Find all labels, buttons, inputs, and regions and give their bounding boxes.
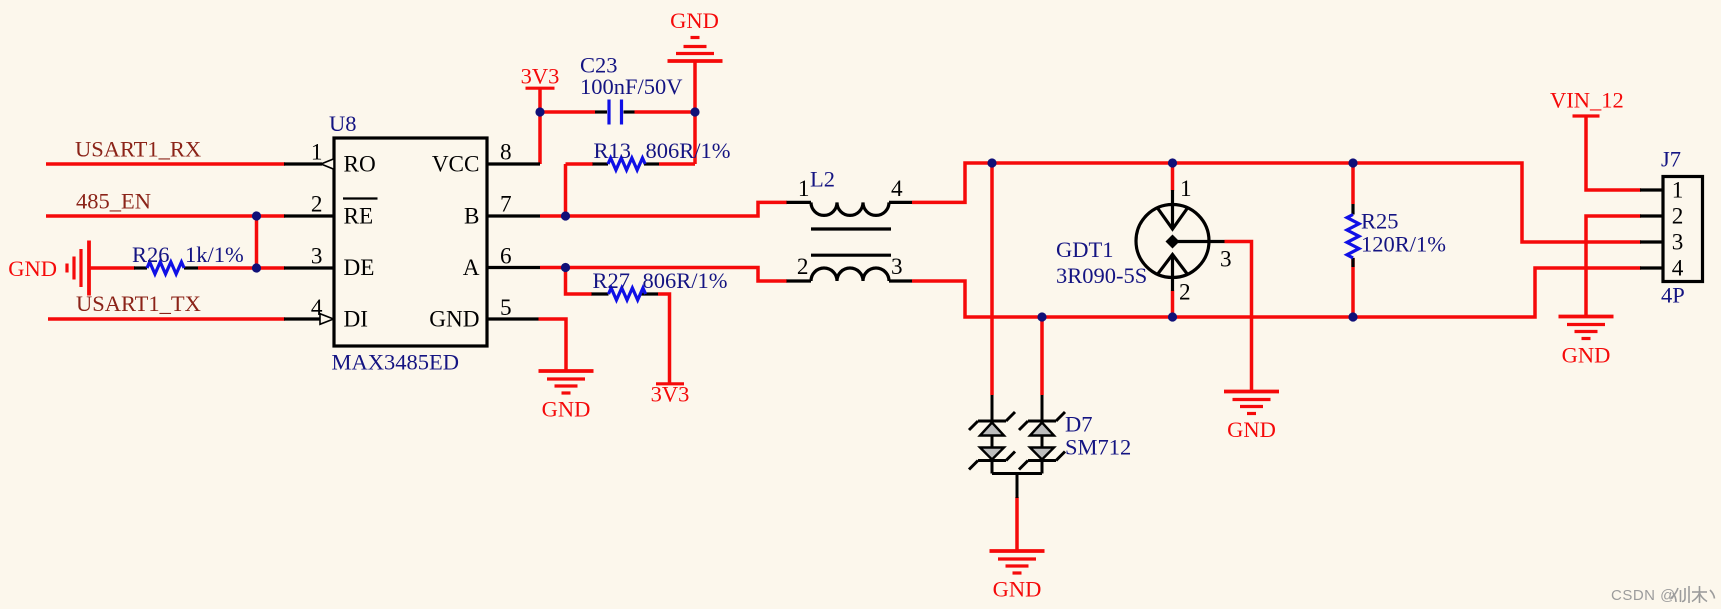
svg-text:120R/1%: 120R/1%: [1361, 232, 1446, 257]
svg-text:100nF/50V: 100nF/50V: [580, 74, 683, 99]
svg-text:L2: L2: [810, 167, 835, 192]
svg-text:B: B: [464, 203, 479, 229]
svg-text:2: 2: [1179, 280, 1191, 306]
svg-text:USART1_TX: USART1_TX: [76, 291, 201, 316]
svg-text:R27: R27: [593, 268, 631, 293]
svg-text:GND: GND: [429, 307, 479, 333]
svg-text:GND: GND: [8, 256, 57, 281]
svg-text:3: 3: [1220, 247, 1232, 273]
svg-text:GDT1: GDT1: [1056, 237, 1114, 262]
svg-text:R25: R25: [1361, 209, 1399, 234]
svg-text:1k/1%: 1k/1%: [185, 242, 244, 267]
svg-text:4: 4: [1672, 255, 1684, 281]
svg-text:MAX3485ED: MAX3485ED: [332, 350, 460, 375]
svg-text:A: A: [463, 255, 480, 281]
svg-text:485_EN: 485_EN: [76, 189, 151, 214]
svg-text:6: 6: [500, 244, 512, 270]
svg-text:U8: U8: [329, 111, 357, 136]
svg-text:3V3: 3V3: [651, 382, 690, 407]
svg-text:3V3: 3V3: [521, 64, 560, 89]
svg-text:VIN_12: VIN_12: [1550, 88, 1624, 113]
svg-text:GND: GND: [993, 577, 1042, 602]
svg-text:GND: GND: [670, 8, 719, 33]
svg-text:1: 1: [1672, 177, 1684, 203]
svg-text:VCC: VCC: [432, 151, 480, 177]
svg-text:1: 1: [798, 176, 810, 202]
svg-text:USART1_RX: USART1_RX: [75, 137, 201, 162]
svg-text:3: 3: [891, 254, 903, 280]
svg-text:7: 7: [500, 192, 512, 218]
svg-text:RE: RE: [344, 203, 374, 229]
svg-text:1: 1: [311, 140, 323, 166]
svg-text:GND: GND: [1227, 417, 1276, 442]
svg-text:R13: R13: [594, 138, 632, 163]
svg-text:1: 1: [1180, 176, 1192, 202]
svg-text:2: 2: [1672, 203, 1684, 229]
svg-text:CSDN @: CSDN @: [1611, 587, 1676, 604]
svg-text:DE: DE: [344, 255, 375, 281]
svg-text:J7: J7: [1661, 147, 1681, 172]
svg-text:R26: R26: [132, 242, 170, 267]
svg-text:3R090-5S: 3R090-5S: [1056, 263, 1147, 288]
svg-text:4P: 4P: [1661, 283, 1685, 308]
svg-text:DI: DI: [344, 307, 368, 333]
svg-text:3: 3: [1672, 229, 1684, 255]
svg-text:806R/1%: 806R/1%: [646, 138, 731, 163]
svg-text:2: 2: [797, 254, 809, 280]
svg-text:GND: GND: [1562, 343, 1611, 368]
svg-text:8: 8: [500, 140, 512, 166]
svg-text:RO: RO: [344, 151, 376, 177]
svg-text:2: 2: [311, 192, 323, 218]
svg-text:3: 3: [311, 244, 323, 270]
svg-text:SM712: SM712: [1065, 435, 1131, 460]
svg-text:GND: GND: [542, 397, 591, 422]
svg-text:4: 4: [311, 295, 323, 321]
svg-text:5: 5: [500, 295, 512, 321]
svg-text:806R/1%: 806R/1%: [643, 268, 728, 293]
svg-text:4: 4: [891, 176, 903, 202]
svg-text:D7: D7: [1065, 412, 1093, 437]
